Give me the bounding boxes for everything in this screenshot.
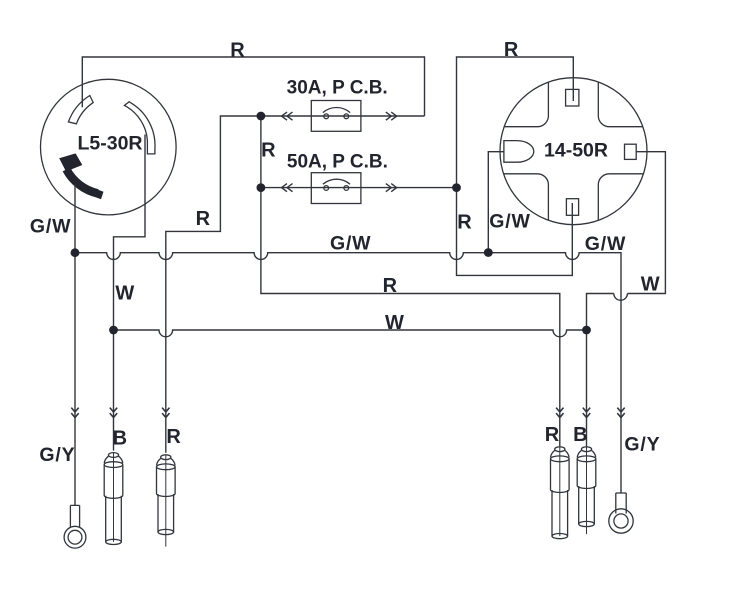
arrow chevrons down G/Y left [71,408,78,418]
wire W bus [114,330,587,337]
svg-text:G/W: G/W [330,232,371,254]
svg-text:B: B [573,424,587,446]
junction dot left G/W [71,248,80,257]
connector chevrons CB2 left [282,184,293,192]
wire R long: 50A input down and right to R pigtail right [261,188,560,447]
ring terminal right [609,493,633,533]
arrow chevrons down R right [556,408,563,418]
svg-text:G/W: G/W [585,233,626,255]
crimp pigtail B right (short) [577,447,596,534]
svg-text:W: W [385,312,404,334]
wire R branch: 30A input down to R pigtail left [166,116,261,453]
svg-text:G/Y: G/Y [624,434,660,456]
14-50R top slot [566,89,579,106]
CB1 contact circles and arc [324,114,329,119]
svg-text:W: W [641,274,660,296]
junction dot 50A input [257,183,266,192]
hop arc W wire over G/Y wire [614,294,628,301]
14-50R left D slot [504,141,534,163]
svg-text:R: R [504,39,519,61]
14-50R right slot [625,144,637,159]
L5-30R slot X (top-left) [68,96,93,124]
svg-text:R: R [196,208,211,230]
arrow chevrons down R left [162,408,169,418]
wire 30A breaker row [261,115,425,117]
wire 50A breaker row [261,187,457,189]
arrow chevrons down G/Y right [617,408,624,418]
ring terminal left [64,505,86,548]
svg-text:G/W: G/W [30,216,71,238]
breaker CB1 box 30A [311,101,361,132]
svg-text:R: R [230,40,245,62]
wire W: 14-50R neutral slot right and down to B pigtail right [587,152,666,447]
crimp pigtail R left (short) [157,455,176,547]
breaker CB2 box 50A [311,173,361,204]
crimp pigtail B left (tall) [104,453,123,545]
L5-30R slot W (right) [124,102,155,154]
svg-text:G/W: G/W [489,210,530,232]
svg-text:B: B [113,428,127,450]
svg-text:R: R [545,424,560,446]
svg-text:L5-30R: L5-30R [77,132,142,154]
wire W: L5-30R neutral slot down to B pigtail left [114,135,146,451]
svg-text:R: R [261,139,276,161]
svg-text:R: R [383,275,398,297]
svg-text:W: W [115,283,134,305]
L5-30R ground pin (filled hook) [66,169,97,193]
crimp pigtail R right (tall) [551,447,570,539]
svg-text:R: R [166,426,181,448]
connector chevrons CB1 right [386,112,397,120]
svg-text:50A, P C.B.: 50A, P C.B. [287,151,388,172]
14-50R bottom slot [566,199,578,216]
wire G/W: 14-50R ground slot to bus [488,152,504,253]
wire R: between breaker inputs [260,116,262,188]
arrow chevrons down B left [110,408,117,418]
junction dot G/W bus 14-50R [484,248,493,257]
arrow chevrons down B right [583,408,590,418]
connector chevrons CB2 right [386,184,397,192]
svg-text:30A, P C.B.: 30A, P C.B. [287,77,388,98]
wire G/W: L5-30R ground down to ring terminal left [74,184,76,505]
junction dot W bus left [109,326,118,335]
svg-text:14-50R: 14-50R [544,139,608,161]
wire R: 50A output up to 14-50R top slot [457,57,574,188]
junction dot 30A input [257,112,266,121]
svg-text:R: R [457,211,472,233]
receptacle L5-30R body [41,79,177,215]
wire G/W bus [75,253,621,493]
connector chevrons CB1 left [282,112,293,120]
receptacle 14-50R body [500,78,647,225]
wire R: L5-30R hot slot to 30A breaker output [82,57,424,116]
junction dot W bus right [582,326,591,335]
svg-text:G/Y: G/Y [39,444,75,466]
wire R: 50A output down to 14-50R bottom slot [457,188,573,276]
14-50R face cross outline [504,82,644,220]
CB2 contact circles and arc [324,186,329,191]
junction dot 50A output [452,183,461,192]
